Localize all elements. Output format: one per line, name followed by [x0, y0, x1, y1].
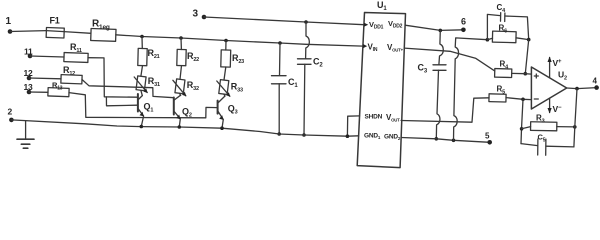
- wire feedback left riser: [521, 99, 523, 143]
- wire 11 to R11: [30, 56, 64, 57]
- capacitor C5: [521, 133, 574, 156]
- svg-text:C2: C2: [313, 57, 323, 69]
- svg-text:GND2: GND2: [384, 134, 401, 142]
- resistor R3: [522, 114, 575, 131]
- resistor R31 (adjustable): [134, 76, 160, 93]
- terminal 5: [485, 132, 492, 145]
- resistor R32 (adjustable): [173, 79, 199, 96]
- transistor Q1: [138, 94, 153, 126]
- svg-text:4: 4: [593, 77, 598, 86]
- wire R31 to Q1 collector: [141, 90, 142, 95]
- svg-text:C5: C5: [538, 133, 546, 144]
- wire terminal1 to fuse: [10, 30, 46, 33]
- terminal 1: [6, 16, 13, 34]
- node C3 bottom: [435, 137, 439, 141]
- node VDD2-C3: [439, 29, 443, 33]
- wire fuse to R1eg: [64, 32, 91, 34]
- wire feedback right riser: [574, 89, 577, 147]
- svg-text:V+: V+: [553, 58, 562, 68]
- terminal 13: [24, 82, 34, 94]
- supply V+: [548, 57, 562, 78]
- wire R11 to Q1 base: [88, 58, 137, 97]
- wire branch3 upper: [225, 41, 227, 51]
- svg-text:Q3: Q3: [228, 104, 238, 116]
- resistor R5: [489, 85, 531, 103]
- wire SHDN tie: [347, 116, 359, 136]
- svg-text:R22: R22: [187, 51, 199, 63]
- resistor R22: [177, 49, 199, 65]
- svg-text:Q2: Q2: [182, 107, 192, 119]
- node C1 bottom: [277, 132, 281, 136]
- wire R33 to Q3 collector: [224, 94, 225, 96]
- wire R21 to R31: [141, 66, 143, 77]
- node rail-B2: [179, 36, 183, 40]
- wire R12 to Q2 base: [82, 80, 174, 98]
- svg-text:3: 3: [193, 9, 199, 20]
- svg-text:F1: F1: [50, 16, 60, 26]
- svg-text:R33: R33: [231, 82, 243, 94]
- svg-text:2: 2: [8, 107, 13, 117]
- wire bottom GND1 rail: [11, 120, 358, 136]
- node Q1 emitter: [140, 125, 144, 129]
- svg-text:R3: R3: [536, 114, 545, 125]
- node C2 top: [304, 20, 308, 24]
- wire output to terminal 4: [567, 88, 597, 89]
- terminal 4: [593, 77, 599, 90]
- svg-text:R6: R6: [499, 24, 508, 35]
- svg-text:R21: R21: [148, 48, 160, 60]
- resistor R11: [64, 42, 88, 62]
- terminal 12: [24, 68, 34, 80]
- svg-text:R32: R32: [187, 80, 199, 92]
- wire VDD2 to terminal 6: [405, 25, 463, 30]
- svg-text:12: 12: [24, 68, 34, 78]
- wire loop right to +input: [525, 40, 528, 74]
- capacitor C4 loop: [487, 3, 528, 40]
- wire R22 to R32: [180, 66, 182, 80]
- wire R13 to Q3 base: [69, 93, 217, 118]
- wire R23 to R33: [224, 67, 226, 80]
- capacitor C3: [418, 30, 447, 138]
- wire VIN rail: [116, 35, 363, 46]
- capacitor C2: [298, 22, 324, 135]
- node output: [575, 87, 579, 91]
- wire GND2 rail to terminal 5: [401, 138, 490, 143]
- resistor R13: [48, 81, 69, 97]
- wire VOUT- to R5: [402, 98, 489, 122]
- svg-text:U1: U1: [377, 0, 387, 12]
- svg-text:1: 1: [6, 16, 12, 27]
- svg-text:VOUT+: VOUT+: [387, 43, 404, 53]
- svg-text:C3: C3: [418, 63, 428, 75]
- node GND2 riser: [452, 139, 456, 143]
- svg-text:V−: V−: [553, 104, 562, 114]
- wire Q1 base hook: [106, 97, 136, 106]
- transistor Q3: [218, 96, 238, 128]
- wire GND2 riser to R6 loop: [454, 38, 488, 140]
- op-amp isolation IC U1: [357, 0, 405, 168]
- resistor R21: [138, 48, 160, 66]
- transistor Q2: [174, 95, 192, 127]
- svg-text:R1eg: R1eg: [92, 19, 110, 32]
- svg-text:VOUT−: VOUT−: [386, 113, 403, 123]
- node R3 right: [573, 125, 577, 129]
- svg-text:11: 11: [24, 47, 33, 57]
- svg-text:Q1: Q1: [144, 102, 154, 114]
- wire branch1 upper: [141, 37, 143, 49]
- svg-text:VDD1: VDD1: [369, 20, 384, 31]
- terminal 6: [461, 17, 466, 33]
- fuse F1: [46, 16, 64, 39]
- node loop right: [527, 38, 531, 42]
- op-amp U2: [531, 67, 567, 109]
- svg-text:13: 13: [24, 82, 34, 92]
- wire 13 to R13: [29, 91, 48, 93]
- wire branch2 upper: [180, 38, 182, 50]
- svg-text:C4: C4: [497, 3, 507, 14]
- terminal 3: [193, 9, 207, 20]
- resistor R4: [495, 60, 532, 78]
- svg-text:SHDN: SHDN: [365, 114, 383, 121]
- terminal 2: [8, 107, 14, 123]
- svg-text:6: 6: [461, 17, 466, 27]
- node R3 left: [520, 127, 524, 131]
- svg-text:R23: R23: [232, 53, 244, 65]
- svg-text:VDD2: VDD2: [388, 19, 403, 30]
- resistor R23: [221, 50, 244, 67]
- wire 12 to R12: [29, 77, 61, 80]
- svg-text:R31: R31: [148, 76, 160, 88]
- node rail-B1: [140, 35, 144, 39]
- terminal 11: [24, 47, 33, 59]
- node rail-C1: [278, 41, 282, 45]
- capacitor C1: [272, 43, 299, 134]
- svg-text:GND1: GND1: [364, 133, 381, 141]
- svg-text:5: 5: [485, 132, 490, 141]
- svg-text:C1: C1: [288, 77, 298, 89]
- wire R32 to Q2 collector: [180, 93, 181, 95]
- node SHDN-GND1: [346, 134, 350, 138]
- resistor R6: [487, 24, 528, 43]
- node rail-B3: [224, 39, 228, 43]
- node Q2 emitter: [178, 125, 182, 129]
- node loop left: [486, 38, 490, 42]
- node +input: [524, 72, 528, 76]
- svg-text:VIN: VIN: [368, 43, 378, 54]
- resistor R33 (adjustable): [217, 80, 243, 97]
- wire VOUT+ to R4: [404, 48, 494, 71]
- resistor R1eg: [91, 19, 116, 42]
- svg-text:U2: U2: [558, 70, 567, 82]
- node C2 bottom: [302, 133, 306, 137]
- ground: [17, 121, 34, 149]
- node -input: [521, 98, 525, 102]
- wire terminal3 to VDD1: [204, 17, 364, 25]
- resistor R12: [61, 65, 82, 84]
- supply V-: [548, 98, 562, 114]
- node Q3 emitter: [220, 126, 224, 130]
